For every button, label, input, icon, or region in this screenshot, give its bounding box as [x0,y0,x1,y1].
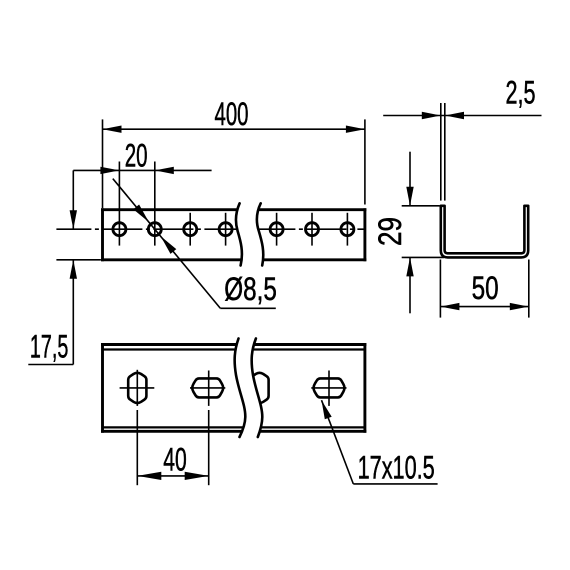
dimension 50 line [440,306,528,308]
top view break line left [235,339,246,438]
slot 3 horizontal [314,378,345,397]
side view bar outline [103,210,365,260]
dimension 400 line [103,128,365,130]
slot 1 vertical [128,373,146,403]
svg-text:20: 20 [125,137,148,173]
hole 1 [113,223,126,236]
dimension 2,5 extension lines [441,103,445,201]
top view fold lines [103,350,365,428]
side view break line right [257,203,263,265]
slot 3 crosshair [311,371,346,406]
svg-text:17,5: 17,5 [30,329,68,365]
dimension 2,5 line [383,115,541,117]
slot 2 horizontal [192,378,223,397]
hole 3 [184,223,197,236]
dimension 17,5 line [28,170,101,364]
top view break line right [252,339,263,438]
hole 5 [270,223,283,236]
svg-text:Ø8,5: Ø8,5 [224,271,276,307]
top view bar outline [103,345,365,432]
dimension 50 extension lines [440,260,528,318]
slot 1 crosshair [120,370,155,406]
dimension 40 line [137,475,208,477]
svg-text:17x10.5: 17x10.5 [358,449,435,485]
leader diameter 8,5 [113,179,276,309]
cross-section channel profile [441,206,528,258]
svg-text:400: 400 [215,96,249,132]
svg-text:2,5: 2,5 [506,74,536,110]
hole 6 [306,223,319,236]
dimension 29 line [406,152,413,314]
svg-text:50: 50 [472,270,499,306]
centerline of side view [56,228,365,230]
hole 2 [148,223,161,236]
svg-text:29: 29 [372,217,408,246]
side view break line left [236,203,242,265]
hole 4 [219,223,232,236]
dimension 29 extension lines [402,206,444,258]
dimension 40 extension lines [137,410,208,485]
leader 17x10.5 [322,400,438,484]
side view break gap mask [236,203,263,265]
slot 2 crosshair [190,371,225,406]
hole crosshair verticals [119,162,347,246]
partial slot at break [250,373,268,403]
top view break gap mask [235,339,263,438]
dimension 20 line [73,169,211,171]
svg-text:40: 40 [163,441,187,477]
dimension 400 extension lines [103,119,365,208]
hole 7 [341,223,354,236]
